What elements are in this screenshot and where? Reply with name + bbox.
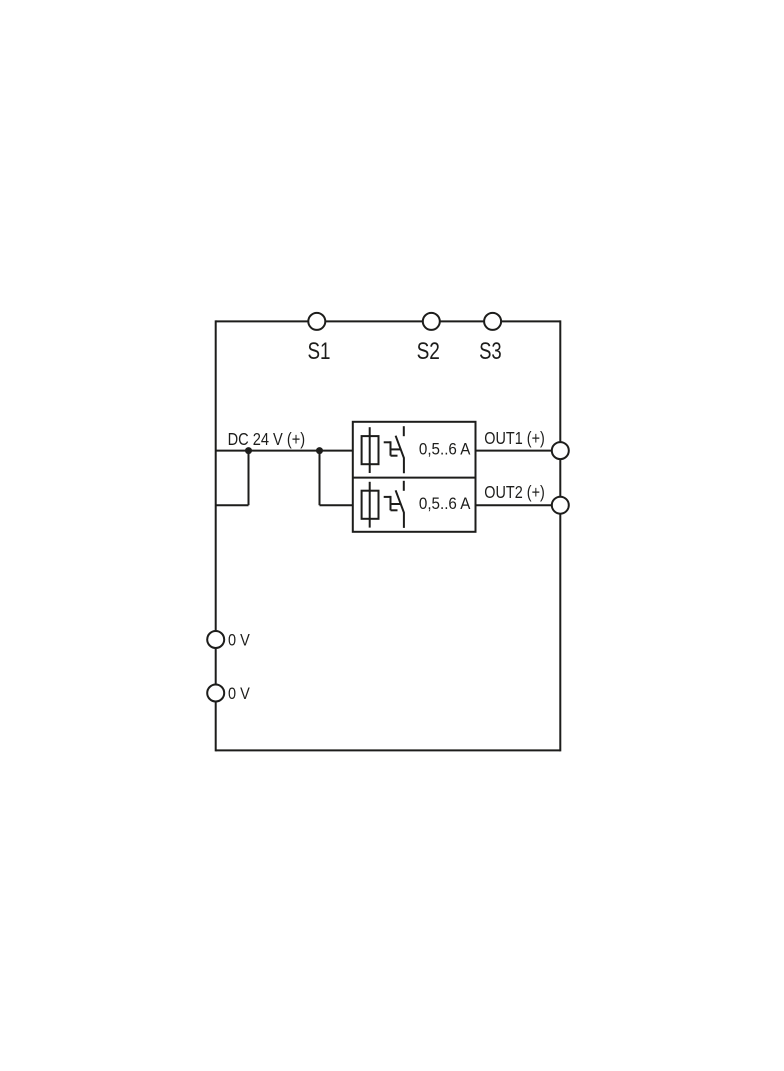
terminal 0V upper: [207, 631, 224, 648]
terminal 0V lower: [207, 685, 224, 702]
svg-text:S1: S1: [308, 338, 331, 365]
breaker CB1 fixed contact dash: [403, 426, 405, 436]
svg-text:0 V: 0 V: [228, 631, 250, 650]
wire DC 24 V (+) feed: [216, 450, 353, 452]
junction node B: [316, 447, 323, 454]
wire branch 2 horizontal to channel 2 input: [320, 504, 353, 506]
breaker CB2 blade: [396, 490, 404, 528]
breaker block U1 outline: [353, 422, 476, 532]
svg-text:OUT2 (+): OUT2 (+): [484, 482, 545, 502]
svg-text:0,5..6 A: 0,5..6 A: [419, 495, 471, 513]
breaker CB2 latch middle arm: [391, 503, 402, 505]
terminal S2: [423, 313, 440, 330]
svg-text:S2: S2: [417, 338, 440, 365]
wire branch 1 horizontal to left rail: [216, 504, 249, 506]
svg-text:S3: S3: [479, 338, 502, 365]
wire bottom bus: [216, 749, 561, 751]
svg-text:0,5..6 A: 0,5..6 A: [419, 440, 471, 458]
breaker CB1 blade: [396, 436, 404, 474]
wire OUT1 output: [476, 450, 561, 452]
wire left rail: [215, 320, 217, 751]
wire branch 2 vertical: [319, 451, 321, 506]
terminal OUT2: [552, 497, 569, 514]
fuse F1 body: [362, 436, 379, 464]
junction node A: [245, 447, 252, 454]
breaker CB2 latch top arm: [384, 496, 391, 498]
breaker CB1 latch bottom arm: [391, 455, 398, 457]
breaker CB1 latch middle arm: [391, 448, 402, 450]
breaker block divider: [353, 477, 476, 479]
breaker CB2 latch bottom arm: [391, 509, 398, 511]
wire branch 1 vertical: [248, 451, 250, 506]
svg-text:0 V: 0 V: [228, 684, 250, 703]
svg-text:OUT1 (+): OUT1 (+): [484, 428, 545, 448]
wire right rail: [559, 320, 561, 751]
svg-text:DC 24 V (+): DC 24 V (+): [228, 429, 306, 449]
fuse F2 lead: [369, 482, 371, 528]
wire top bus S1-S2-S3: [216, 320, 561, 322]
terminal S3: [484, 313, 501, 330]
breaker CB1 latch top arm: [384, 441, 391, 443]
fuse F2 body: [362, 491, 379, 519]
breaker CB2 fixed contact dash: [403, 481, 405, 491]
breaker CB1 latch vertical: [390, 441, 392, 455]
terminal OUT1: [552, 442, 569, 459]
fuse F1 lead: [369, 427, 371, 473]
terminal S1: [308, 313, 325, 330]
wire OUT2 output: [476, 504, 561, 506]
breaker CB2 latch vertical: [390, 496, 392, 510]
